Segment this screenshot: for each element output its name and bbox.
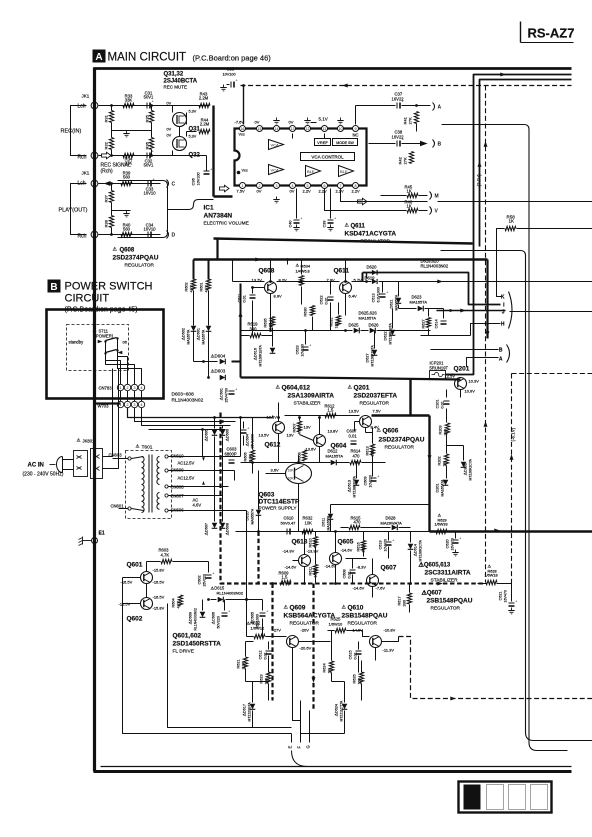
transistor Q613 (299, 555, 311, 567)
svg-text:REGULATOR: REGULATOR (385, 445, 415, 451)
wire fl drop (123, 578, 292, 734)
wire D617 drop (252, 711, 254, 728)
svg-text:MA165TA: MA165TA (410, 300, 428, 305)
wire R611 drop (315, 575, 317, 583)
capacitor C621 (509, 599, 519, 607)
wire play R (99, 234, 161, 236)
wire R617 riser (409, 584, 411, 593)
svg-text:100: 100 (358, 678, 362, 684)
svg-text:-7.6V: -7.6V (235, 120, 245, 125)
svg-text:R31: R31 (104, 114, 109, 122)
diode D628 (392, 525, 398, 531)
legend cell 4 (531, 785, 548, 810)
wire W703 p2 (128, 408, 241, 418)
junction rec L1 (110, 104, 113, 107)
svg-text:C602: C602 (198, 575, 202, 584)
svg-text:VCA: VCA (271, 168, 280, 173)
svg-text:R627: R627 (422, 319, 426, 328)
svg-text:3.6V: 3.6V (271, 468, 280, 473)
svg-text:⚠: ⚠ (136, 444, 141, 449)
IC1 bottom pin 5 (305, 183, 311, 189)
resistor R612 (325, 413, 336, 417)
chassis ground E1 (79, 537, 92, 546)
wire Q608-Q611 (277, 281, 340, 283)
ground play (123, 211, 129, 217)
wire r603 b (173, 561, 209, 563)
svg-text:R624: R624 (323, 663, 327, 672)
wire C605-Q609 link (262, 619, 264, 637)
svg-text:-27V: -27V (273, 628, 282, 633)
svg-text:⚠C604: ⚠C604 (246, 434, 250, 446)
resistor R629 (436, 529, 447, 533)
wire H (471, 324, 501, 336)
wire R58 left leg (497, 229, 505, 297)
terminal CN610 (165, 455, 168, 458)
wire R621 link (246, 641, 254, 643)
thick dashed rail mid (257, 532, 259, 584)
junction d605 (213, 416, 216, 419)
junction C35 dashed (242, 84, 245, 87)
svg-text:16V470: 16V470 (451, 538, 455, 550)
resistor R43 (199, 103, 210, 107)
svg-text:⚠: ⚠ (348, 385, 353, 391)
thick y377 more (299, 378, 461, 380)
connector JK801 box (74, 451, 88, 477)
wire C607 riser (354, 422, 356, 432)
wire D621 drop (398, 305, 400, 309)
svg-text:⚠D617: ⚠D617 (243, 704, 247, 716)
diode D620 (372, 270, 377, 275)
wire R44 row (187, 131, 197, 133)
wire bridge v5 (240, 418, 242, 457)
transistor Q603 dual (286, 464, 312, 484)
junction Q608 base (251, 286, 254, 289)
junction d606 (221, 420, 224, 423)
wire J to edge (510, 311, 592, 313)
svg-text:1K: 1K (509, 219, 515, 224)
wire R630 drop (312, 317, 314, 331)
svg-text:-7.6V: -7.6V (376, 586, 386, 591)
ground rec center (123, 131, 129, 137)
svg-text:MA165TA: MA165TA (187, 329, 191, 345)
wire right cluster v2 (446, 435, 448, 454)
terminal CN609 (165, 469, 168, 472)
svg-text:VCA CONTROL: VCA CONTROL (311, 155, 344, 160)
wire R36 riser b (151, 150, 153, 156)
svg-text:2SA1309AIRTA: 2SA1309AIRTA (288, 393, 335, 400)
ground C35 (220, 85, 226, 91)
svg-text:2.2V: 2.2V (303, 189, 312, 194)
svg-text:C39: C39 (323, 221, 327, 228)
wire Q31 source drop (172, 106, 174, 113)
svg-text:2.2M: 2.2M (200, 122, 210, 127)
IC1 VCA amp 1 (269, 140, 284, 150)
junction play R (110, 233, 113, 236)
wire W703 p1 thick (96, 402, 121, 404)
svg-text:0V: 0V (257, 189, 262, 194)
svg-text:4: 4 (141, 386, 143, 390)
thick drop x429 (428, 416, 430, 532)
svg-text:330: 330 (403, 600, 407, 606)
svg-text:⚠D613: ⚠D613 (348, 480, 352, 492)
svg-text:R616: R616 (357, 542, 361, 551)
resistor R628 (486, 580, 497, 584)
thick wire D619 block (362, 273, 364, 282)
wire y462 row2 (337, 462, 350, 464)
svg-text:D620: D620 (367, 265, 378, 270)
svg-text:⚠Q605,613: ⚠Q605,613 (419, 562, 451, 569)
wire R607 riser (299, 418, 301, 421)
svg-text:8: 8 (355, 184, 357, 188)
IC1 body outline (235, 129, 367, 186)
wire q612 row (241, 417, 273, 419)
resistor R602 (191, 279, 195, 290)
IC1 top pin 13 (290, 126, 296, 132)
arrow rec signal hollow (102, 152, 112, 158)
IC1 internal wire 1 (292, 134, 294, 139)
svg-text:3: 3 (134, 386, 136, 390)
svg-text:-11.3V: -11.3V (383, 648, 395, 653)
resistor R41 (414, 112, 418, 124)
wire play box to IC (168, 200, 214, 210)
diode D623 (418, 306, 424, 312)
svg-text:4.6V: 4.6V (193, 503, 202, 508)
wire D605 riser (214, 418, 216, 422)
svg-text:R202: R202 (438, 456, 442, 465)
svg-text:Q601,602: Q601,602 (173, 633, 202, 640)
wire R35 riser b (151, 123, 153, 131)
wire Q608 base drop (253, 287, 265, 289)
resistor R607 (297, 421, 301, 432)
connector B arrow (420, 141, 428, 147)
wire q609 base (266, 636, 287, 638)
wire C611 riser (252, 288, 254, 294)
thick audio bus lower (214, 239, 473, 244)
wire Q gate bus (212, 106, 214, 197)
svg-text:27K: 27K (403, 157, 408, 164)
junction y330 c (344, 329, 347, 332)
svg-text:10V100: 10V100 (301, 344, 305, 356)
transistor Q602 (141, 598, 153, 610)
wire C613 drop (382, 282, 384, 293)
dashed x511 vertical (511, 374, 513, 583)
wire mid row y330b (361, 330, 369, 332)
wire bridge v1 (214, 422, 216, 429)
svg-text:10: 10 (339, 127, 343, 131)
IC1 top pin 15 (257, 126, 263, 132)
wire Q607 riser (372, 559, 374, 575)
thick dashed rail left (221, 413, 273, 584)
wire y462 row3 (362, 462, 386, 464)
wire E drop (291, 734, 293, 743)
diode D624 (342, 704, 348, 710)
ground under C39 (327, 225, 333, 231)
svg-text:Q201: Q201 (354, 385, 370, 392)
resistor R610 (313, 537, 317, 547)
resistor R632 (302, 529, 313, 533)
svg-text:470: 470 (354, 520, 362, 525)
wire Q611 emitter (345, 294, 347, 316)
svg-text:560: 560 (123, 175, 131, 180)
wire Q610 in (328, 630, 335, 632)
resistor R45 (407, 193, 418, 197)
svg-text:MA165TA: MA165TA (326, 454, 344, 459)
svg-text:Q611: Q611 (334, 268, 350, 275)
svg-text:13: 13 (291, 127, 295, 131)
arrow y531 (494, 529, 499, 533)
capacitor C623 (303, 343, 313, 351)
wire q612-q201 top (285, 415, 360, 417)
wire D628 right (399, 527, 411, 529)
svg-text:Q603: Q603 (259, 492, 275, 499)
dashed control bus top (241, 85, 572, 87)
resistor R203 (445, 423, 449, 434)
svg-text:-14.6V: -14.6V (285, 565, 297, 570)
svg-text:-20V: -20V (301, 628, 310, 633)
capacitor C603 (229, 460, 235, 463)
svg-text:7: 7 (340, 184, 342, 188)
connector B (433, 140, 442, 148)
svg-text:REGULATOR: REGULATOR (348, 621, 378, 627)
svg-text:⚠Q607: ⚠Q607 (422, 590, 443, 597)
wire D624 row (332, 681, 345, 683)
svg-text:⚠: ⚠ (438, 513, 442, 518)
junction rec L2 (150, 104, 153, 107)
svg-text:2.2M: 2.2M (199, 96, 209, 101)
svg-text:⚠: ⚠ (284, 605, 289, 611)
svg-text:⚠: ⚠ (342, 605, 347, 611)
legend cell 3 (509, 785, 526, 810)
section label A (black square) (93, 50, 106, 63)
svg-text:R621: R621 (237, 659, 241, 668)
svg-text:10K: 10K (288, 469, 295, 473)
wire q604 base (300, 435, 314, 441)
wire CN603 (113, 458, 129, 460)
svg-text:16V10: 16V10 (143, 227, 156, 232)
svg-text:AC12.5V: AC12.5V (178, 461, 195, 466)
wire D202 down (463, 446, 465, 461)
wire R626 riser (361, 661, 363, 673)
svg-text:AC12.5V: AC12.5V (178, 476, 195, 481)
svg-text:+: + (377, 474, 380, 479)
connector plug box2 (91, 449, 103, 479)
resistor R631 (336, 316, 340, 326)
svg-text:12: 12 (306, 127, 310, 131)
svg-text:⚠D602: ⚠D602 (182, 328, 186, 340)
svg-text:0.01: 0.01 (349, 434, 358, 439)
svg-text:1/6W10: 1/6W10 (329, 622, 344, 627)
svg-text:15: 15 (258, 127, 262, 131)
diode D614 (408, 544, 414, 550)
svg-text:MA165TA: MA165TA (395, 294, 399, 310)
svg-text:D: D (172, 232, 176, 238)
svg-text:10.9V: 10.9V (465, 389, 476, 394)
wire D623 row (399, 308, 417, 310)
resistor R33 (123, 103, 134, 107)
svg-text:R602: R602 (185, 282, 189, 291)
svg-text:16: 16 (241, 127, 245, 131)
capacitor C607 (351, 441, 357, 444)
svg-text:-14.9V: -14.9V (283, 549, 295, 554)
svg-text:standby: standby (69, 340, 85, 345)
svg-text:1K: 1K (328, 668, 332, 673)
resistor R37 (109, 191, 113, 203)
wire d60x join (194, 361, 218, 363)
svg-text:MTZJ6R1BTA: MTZJ6R1BTA (371, 345, 375, 367)
svg-text:STABILIZER: STABILIZER (294, 401, 322, 407)
wire y599 ext (226, 599, 263, 601)
wire Q605 emit (335, 565, 337, 583)
arrow J wire (460, 309, 465, 313)
junction y417 a (239, 416, 242, 419)
junction rec R2 (150, 154, 153, 157)
wire D616 riser (272, 328, 274, 347)
junction y281 a (269, 280, 272, 283)
svg-text:D603~608: D603~608 (172, 392, 195, 398)
wire bridge v6 (234, 471, 236, 481)
resistor R634 (299, 276, 303, 286)
svg-text:REGULATOR: REGULATOR (431, 606, 461, 612)
svg-text:+: + (309, 343, 312, 348)
svg-text:Q32: Q32 (189, 153, 201, 159)
svg-text:R606: R606 (244, 452, 248, 461)
thick vert x208 top (208, 260, 210, 280)
svg-text:R617: R617 (398, 596, 402, 605)
junction y531 c (334, 530, 337, 533)
transformer dashed box (126, 451, 172, 519)
wire R619 left (241, 335, 250, 337)
wire mid row y330c (377, 330, 431, 332)
play network box (118, 181, 168, 238)
wire Q603 base wire (266, 473, 286, 475)
wire R46 right (419, 210, 428, 212)
svg-text:Q607: Q607 (381, 565, 397, 572)
svg-text:RS-AZ7: RS-AZ7 (528, 26, 575, 41)
svg-text:Q602: Q602 (127, 616, 143, 623)
junction y599 d615 (245, 598, 248, 601)
wire C37 left (356, 105, 396, 107)
wire Q611 right (352, 281, 372, 283)
top bus wire V+ (94, 67, 572, 70)
svg-text:Q604,612: Q604,612 (282, 385, 311, 392)
wire G drop (309, 711, 311, 743)
wire C619 drop (388, 547, 390, 559)
transistor Q608 (265, 282, 277, 294)
capacitor C38 (397, 137, 405, 147)
wire C606 riser (224, 600, 226, 611)
svg-text:Q611: Q611 (351, 224, 366, 230)
svg-text:470: 470 (353, 454, 361, 459)
svg-text:REGULATOR: REGULATOR (125, 263, 155, 269)
wire q609 left (247, 636, 254, 638)
ground C620 (452, 550, 458, 556)
wire F drop (300, 701, 302, 743)
junction bus D619 (365, 280, 368, 283)
arrow tap 608 (202, 481, 205, 485)
resistor R58 (505, 226, 516, 230)
svg-text:⚠D616: ⚠D616 (254, 348, 258, 360)
svg-text:10V220: 10V220 (369, 475, 373, 487)
wire q609 emit (292, 648, 294, 661)
svg-text:1/4W6.8: 1/4W6.8 (296, 270, 310, 274)
terminal CN606 (165, 509, 168, 512)
switch dashed box (67, 325, 129, 371)
wire D610 drop (258, 516, 260, 531)
wire C614 riser (443, 309, 445, 319)
junction dashed q605 (334, 582, 337, 585)
wire Q608 emitter (270, 294, 272, 331)
svg-text:MTZJ11CTTA: MTZJ11CTTA (340, 700, 344, 722)
svg-text:⚠D604: ⚠D604 (211, 354, 226, 359)
svg-text:10V100: 10V100 (223, 73, 236, 77)
wire D623 right (425, 308, 444, 310)
svg-text:+: + (212, 571, 215, 576)
arrow dashed vertical 2 (484, 421, 488, 426)
connector bracket KIJH (509, 292, 513, 329)
svg-text:T601: T601 (142, 445, 153, 451)
svg-text:D621: D621 (390, 299, 394, 308)
svg-text:2SB1548PQAU: 2SB1548PQAU (342, 613, 388, 620)
wire D621 riser (398, 282, 400, 297)
junction q612 top (277, 416, 280, 419)
junction dashed q613 (303, 582, 306, 585)
wire R624 drop (331, 673, 333, 682)
IC1 ground pin14 (273, 118, 279, 124)
resistor R608 (302, 450, 306, 461)
junction y462 c (251, 461, 254, 464)
fuse ICP201 box (430, 371, 446, 380)
wire right cluster v3 (446, 466, 448, 479)
svg-text:REGULATOR: REGULATOR (290, 621, 320, 627)
capacitor C610 (287, 529, 290, 535)
svg-text:2SD2037EFTA: 2SD2037EFTA (354, 393, 398, 400)
capacitor C606 (222, 609, 232, 617)
diode D626 (370, 328, 376, 334)
wire sec 606 (169, 510, 217, 512)
IC1 bottom pin 7 (338, 183, 344, 189)
svg-text:⚠D606: ⚠D606 (226, 429, 230, 441)
svg-text:6.4V: 6.4V (349, 294, 358, 299)
connector W703 pin 1 (117, 401, 123, 407)
IC wire pin11 5.1V (311, 122, 317, 124)
svg-text:4: 4 (141, 403, 143, 407)
IC1 BLE amp 2 (339, 166, 354, 177)
transistor Q604 (314, 435, 326, 447)
terminal CN603 (128, 457, 131, 460)
wire R38 riser b (111, 228, 113, 235)
svg-text:1.5: 1.5 (328, 408, 334, 413)
wire D609 riser (202, 600, 204, 611)
svg-text:⚠D202: ⚠D202 (464, 463, 468, 475)
wire R627 riser (428, 309, 430, 317)
diode D201 (443, 480, 449, 486)
svg-text:R626: R626 (353, 674, 357, 683)
wire B2 (431, 349, 499, 351)
svg-text:R635: R635 (264, 318, 268, 327)
svg-text:A: A (438, 104, 442, 110)
svg-text:2.2K: 2.2K (242, 661, 246, 669)
svg-text:R604: R604 (172, 598, 176, 607)
svg-text:⚠: ⚠ (345, 223, 350, 229)
resistor R614 (350, 460, 361, 464)
connector CN783 pin 4 (138, 384, 144, 390)
wire R36 riser t (151, 131, 153, 138)
capacitor C622 (328, 297, 334, 300)
arrow on dashed bus (342, 84, 347, 88)
wire D614 drop (410, 551, 412, 583)
wire C38 left (369, 143, 396, 145)
svg-text:MA165TA: MA165TA (327, 515, 331, 531)
